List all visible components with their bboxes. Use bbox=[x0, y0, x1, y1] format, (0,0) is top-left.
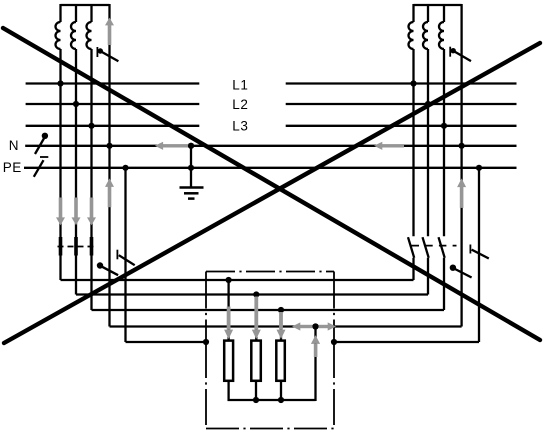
current arrow up (T1 neutral top) bbox=[105, 18, 114, 45]
wire T1 phase c bbox=[90, 4, 92, 22]
svg-text:L3: L3 bbox=[232, 119, 248, 134]
wire star riser bbox=[314, 327, 316, 402]
switch on PE bus (left) bbox=[34, 160, 44, 177]
disconnector Q2 (right transformer neutral) bbox=[450, 47, 471, 61]
current arrow left (N right side) bbox=[374, 142, 404, 150]
switch on N bus (left) bbox=[35, 138, 44, 154]
wire feeder PE left bbox=[126, 341, 207, 343]
svg-text:L2: L2 bbox=[232, 97, 248, 112]
switch S2 blade b bbox=[423, 237, 429, 258]
bus L1 bbox=[26, 82, 517, 84]
bus PE bbox=[24, 167, 517, 169]
switch S2 (right 3-pole, open) dashed link bbox=[412, 245, 457, 247]
current arrow down (R2 feed) bbox=[252, 297, 261, 340]
resistor R1 bbox=[224, 341, 233, 381]
ground bbox=[180, 188, 204, 199]
bus N bbox=[25, 145, 516, 147]
switch S1 (left 3-pole, closed) dashed link bbox=[58, 246, 97, 248]
node PE-earth bbox=[188, 165, 194, 171]
crossing-out diagonal B bbox=[4, 43, 540, 343]
node T2a-L1 bbox=[410, 80, 416, 86]
wire S2b out bbox=[427, 258, 429, 295]
switch S2 blade a bbox=[408, 237, 414, 258]
winding T2-b bbox=[423, 22, 428, 49]
winding T1-b bbox=[71, 22, 76, 49]
wire T1 phase b to switch bbox=[75, 49, 77, 295]
crossing-out diagonal A bbox=[3, 28, 540, 340]
node T2n-N bbox=[459, 143, 465, 149]
node T1n-N bbox=[106, 143, 112, 149]
wire T2 phase c bbox=[443, 4, 445, 22]
bus L3 bbox=[26, 125, 517, 127]
wire T2 phase b to breaker bbox=[427, 49, 429, 236]
current arrow up (left neutral below N) bbox=[105, 178, 114, 207]
current arrow down (T1 phase b) bbox=[72, 198, 81, 226]
disconnector Q4 (left PE, lower) bbox=[116, 250, 118, 260]
resistor R3 bbox=[276, 341, 285, 381]
transformer T2 top bar bbox=[414, 4, 462, 6]
wire T1 phase c to switch bbox=[90, 49, 92, 310]
disconnector Q3 (left neutral, lower) bbox=[101, 266, 118, 275]
wire T1 phase b bbox=[75, 4, 77, 22]
wire T1 phase a bbox=[59, 4, 61, 22]
current arrow up (star riser) bbox=[311, 335, 320, 357]
current arrow down (T1 phase c) bbox=[87, 198, 96, 226]
node R3 tap bbox=[278, 307, 284, 313]
svg-text:L1: L1 bbox=[232, 77, 248, 92]
node T2b-L2 bbox=[425, 101, 431, 107]
current arrow left (neutral line toward T1) bbox=[292, 322, 315, 330]
current arrow down (T1 phase a) bbox=[56, 198, 65, 226]
wire R3 bottom bbox=[280, 381, 282, 401]
wire feeder neutral bbox=[110, 325, 462, 327]
wire feeder line 2 bbox=[76, 293, 428, 295]
current arrow up (T2 neutral below N) bbox=[457, 178, 466, 208]
switch S1 pole bars bbox=[59, 237, 63, 256]
node R3 star bbox=[278, 397, 284, 403]
node PE tap left bbox=[122, 165, 128, 171]
node T1c-L3 bbox=[88, 123, 94, 129]
wire R3 feed bbox=[280, 310, 282, 340]
wire feeder line 1 bbox=[61, 279, 414, 281]
wire R2 bottom bbox=[255, 381, 257, 401]
wire N-earth link bbox=[190, 146, 192, 187]
node PE-enclosure right bbox=[331, 339, 337, 345]
wire T2 phase a bbox=[412, 4, 414, 22]
node PE-enclosure left bbox=[203, 339, 209, 345]
node star-N bbox=[312, 323, 318, 329]
node R2 tap bbox=[253, 291, 259, 297]
disconnector Q6 (right PE, lower) bbox=[469, 245, 471, 254]
winding T1-c bbox=[87, 22, 92, 49]
node R2 star bbox=[253, 397, 259, 403]
wire T2 phase b bbox=[427, 4, 429, 22]
node star-N (over arrow) bbox=[312, 323, 318, 329]
wire T2 neutral bbox=[460, 4, 462, 327]
node N-earth bbox=[188, 143, 194, 149]
node T1a-L1 bbox=[57, 80, 63, 86]
wire star bus bbox=[228, 399, 316, 401]
node N-earth (over arrow) bbox=[188, 143, 194, 149]
wire feeder PE right bbox=[334, 341, 479, 343]
wire S2c out bbox=[443, 258, 445, 310]
node PE tap right bbox=[476, 165, 482, 171]
current arrow right (neutral line toward T2) bbox=[317, 322, 337, 330]
switch S2 blade c bbox=[439, 237, 445, 258]
wire T2 phase c to breaker bbox=[443, 49, 445, 236]
current arrow left (N to ground) bbox=[155, 142, 191, 150]
wire S2a out bbox=[412, 258, 414, 280]
disconnector Q5 (right neutral, lower) bbox=[455, 269, 472, 278]
wire T2 phase a to breaker bbox=[412, 49, 414, 236]
wire R1 feed bbox=[227, 280, 229, 340]
enclosure box (dash-dot) bbox=[206, 272, 334, 429]
node R1 tap bbox=[226, 277, 232, 283]
current arrow down (R3 feed) bbox=[277, 312, 286, 339]
wire T1 phase a to switch bbox=[59, 49, 61, 280]
svg-text:PE: PE bbox=[3, 160, 22, 175]
wire T1 neutral bbox=[108, 4, 110, 327]
wire PE drop right bbox=[478, 168, 480, 342]
wire R2 feed bbox=[255, 295, 257, 340]
current arrow down (R1 feed) bbox=[224, 307, 233, 340]
transformer T1 top bar bbox=[61, 4, 110, 6]
wire PE drop left bbox=[124, 168, 126, 342]
winding T2-a bbox=[409, 22, 414, 49]
bus L2 bbox=[26, 103, 517, 105]
winding T1-a bbox=[56, 22, 61, 49]
winding T2-c bbox=[439, 22, 444, 49]
disconnector Q1 (left transformer neutral) bbox=[97, 47, 118, 61]
svg-text:N: N bbox=[9, 138, 19, 153]
node T1b-L2 bbox=[73, 101, 79, 107]
wire feeder line 3 bbox=[92, 309, 445, 311]
resistor R2 bbox=[251, 341, 260, 381]
wire R1 bottom bbox=[227, 381, 229, 402]
node T2c-L3 bbox=[441, 123, 447, 129]
